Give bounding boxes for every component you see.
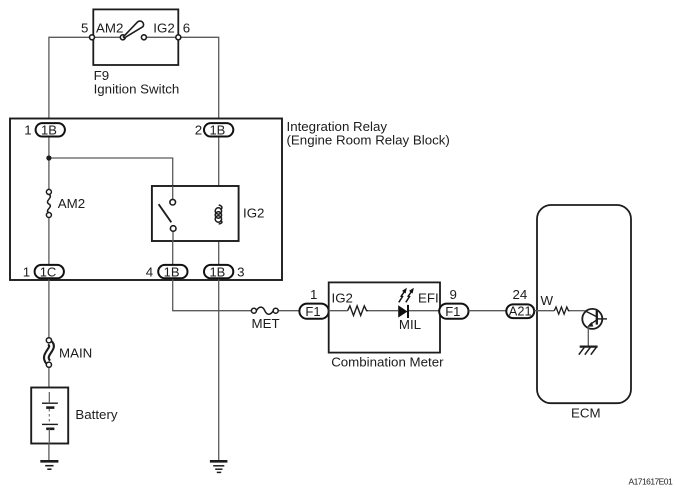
wire: relay pin 3 down to ground	[218, 278, 220, 461]
IG2 relay switch lever	[159, 204, 172, 222]
wire: MET fuse to F1	[278, 310, 299, 312]
wire: A21 into ECM	[534, 310, 554, 312]
svg-text:1C: 1C	[40, 264, 57, 279]
connector 1B pin2 (relay top-right)	[204, 122, 233, 137]
wire: IG2 switch to pin 4 and MET fuse	[173, 241, 252, 311]
wire: relay pin1 down through AM2 fuse to pin 1C	[48, 123, 50, 265]
connector 1C (relay bottom-left)	[35, 264, 64, 279]
svg-text:3: 3	[237, 264, 244, 279]
wire: pin 1C down to battery	[48, 278, 50, 403]
svg-text:1: 1	[310, 287, 317, 302]
svg-text:1B: 1B	[164, 264, 180, 279]
svg-text:5: 5	[81, 21, 88, 36]
connector F1 pin9	[439, 304, 468, 319]
combination meter box	[329, 282, 440, 352]
svg-text:Ignition Switch: Ignition Switch	[94, 82, 180, 97]
wire: relay pin2 down through IG2 coil to pin 3	[218, 137, 220, 266]
ignition switch F9 box	[93, 9, 178, 65]
svg-text:MAIN: MAIN	[59, 346, 92, 361]
ground (battery)	[40, 461, 58, 469]
AM2 fuse	[46, 189, 51, 217]
IG2 relay coil	[215, 205, 222, 224]
svg-text:F1: F1	[305, 304, 320, 319]
svg-text:Battery: Battery	[75, 407, 117, 422]
svg-text:(Engine Room Relay Block): (Engine Room Relay Block)	[287, 133, 450, 148]
ignition switch contacts (terminals 5, AM2, IG2, 6)	[90, 35, 181, 40]
connector A21	[506, 304, 534, 319]
svg-text:IG2: IG2	[243, 206, 264, 221]
svg-text:MET: MET	[252, 316, 280, 331]
connector F1 pin1	[299, 304, 328, 319]
IG2 relay box	[152, 186, 239, 241]
connector 1B pin4	[158, 264, 187, 279]
wire: F1 to A21	[469, 310, 507, 312]
node: junction dot	[46, 155, 51, 160]
svg-text:A171617E01: A171617E01	[629, 477, 673, 487]
svg-text:6: 6	[183, 21, 190, 36]
svg-text:1B: 1B	[209, 122, 225, 137]
ignition switch lever	[123, 21, 143, 38]
wire: ignition terminal 5 to relay pin 1 (vertical drop)	[49, 37, 92, 123]
IG2 relay switch contacts	[170, 199, 176, 231]
chassis ground (ECM)	[579, 347, 598, 355]
wire: meter internal	[329, 310, 440, 312]
integration relay box	[10, 119, 282, 281]
svg-text:ECM: ECM	[571, 406, 601, 421]
wire: battery to ground	[48, 444, 50, 462]
wire: resistor to transistor	[570, 310, 585, 312]
svg-text:EFI: EFI	[418, 291, 439, 306]
wire: ignition terminal 6 to relay pin 2 (vertical drop)	[178, 37, 218, 123]
LED MIL diode	[398, 305, 408, 318]
svg-text:IG2: IG2	[153, 21, 174, 36]
svg-text:AM2: AM2	[58, 196, 85, 211]
svg-text:2: 2	[195, 123, 202, 138]
svg-text:1B: 1B	[209, 264, 225, 279]
resistor (ECM)	[554, 307, 569, 314]
MAIN fusible link	[46, 338, 51, 368]
transistor Q (ECM output)	[582, 309, 607, 347]
svg-text:A21: A21	[509, 304, 532, 319]
connector 1B pin1 (relay top-left)	[36, 122, 65, 137]
svg-text:9: 9	[450, 287, 457, 302]
svg-text:1: 1	[23, 264, 30, 279]
wire: inside ignition switch	[92, 36, 178, 38]
wire: junction to IG2 relay switch	[49, 158, 173, 200]
ground (relay pin 3)	[210, 461, 228, 472]
wire: IG2 switch vertical stubs	[172, 186, 174, 241]
svg-text:1: 1	[24, 123, 31, 138]
svg-text:Combination Meter: Combination Meter	[331, 355, 444, 370]
battery box	[31, 388, 68, 444]
svg-text:F1: F1	[445, 304, 460, 319]
ECM box	[537, 205, 631, 403]
resistor (meter)	[348, 306, 369, 316]
MET fuse	[251, 307, 278, 314]
svg-text:W: W	[541, 293, 554, 308]
svg-text:1B: 1B	[41, 122, 57, 137]
svg-text:AM2: AM2	[96, 21, 123, 36]
svg-text:MIL: MIL	[399, 317, 421, 332]
svg-text:IG2: IG2	[332, 291, 353, 306]
connector 1B pin3	[204, 264, 233, 279]
svg-text:24: 24	[513, 287, 528, 302]
svg-text:4: 4	[146, 264, 153, 279]
battery cell symbol	[42, 392, 58, 444]
LED arrows	[399, 289, 413, 303]
